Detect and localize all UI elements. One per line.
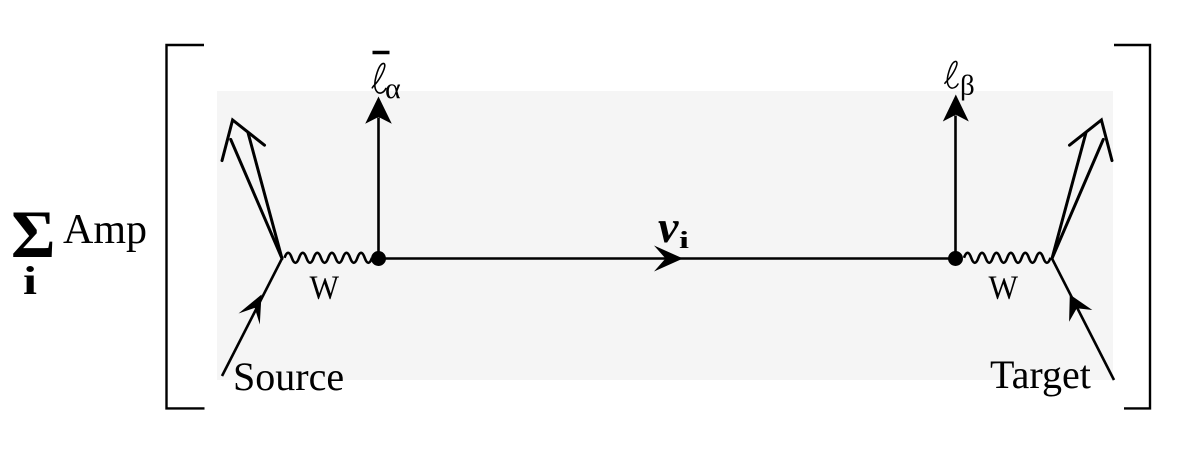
svg-text:Source: Source [233,354,344,399]
svg-text:ν: ν [658,201,679,252]
svg-text:i: i [23,258,37,303]
svg-text:β: β [960,70,975,102]
svg-text:W: W [989,270,1019,307]
svg-text:W: W [310,270,340,307]
svg-text:α: α [385,72,401,105]
svg-text:Target: Target [990,352,1091,397]
svg-text:i: i [679,228,689,254]
svg-text:Amp: Amp [63,207,147,253]
